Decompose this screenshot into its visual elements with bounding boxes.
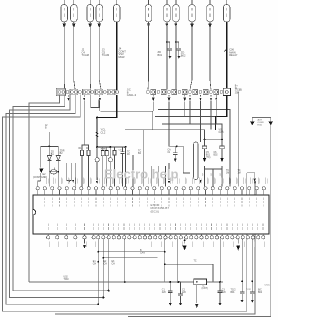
capacitor C9 to ground [218, 282, 223, 306]
wire [166, 22, 168, 90]
wire [147, 22, 150, 90]
junction [96, 117, 98, 119]
wire from IC pin 124.9 to bottom bus [124, 239, 126, 282]
wire IC pin 108.6 down [108, 239, 110, 291]
CAN bus line H [98, 251, 165, 253]
wire [175, 22, 177, 90]
wire R4 [106, 147, 108, 151]
wire arrow [166, 24, 169, 28]
wire corner detail [91, 95, 99, 108]
wire down with arrow into IC pin [168, 163, 170, 180]
wire from pin 211 to h4 [210, 101, 212, 130]
junction [103, 257, 105, 259]
dark bus from relay: down right side and jog [216, 95, 227, 130]
wire R3 [102, 147, 104, 151]
bus jog h1b [158, 110, 230, 187]
wire 166 down [165, 166, 167, 187]
wire arrow [190, 24, 194, 29]
junction [97, 303, 99, 305]
routing wire loop 4 (ends on IC ground wire) [6, 95, 98, 305]
junction [164, 251, 166, 253]
solenoid connector B6 [207, 0, 214, 22]
zener diode D1 [47, 146, 51, 186]
wire from IC pin 164.7 [164, 239, 166, 282]
svg-text:TC/2: TC/2 [246, 289, 252, 291]
tick on relay wire [224, 49, 227, 52]
wire v 216 from pin to h3 [215, 97, 217, 125]
resistor R4b [113, 151, 116, 155]
svg-text:(CONT.GND): (CONT.GND) [33, 176, 47, 179]
svg-text:TC1M: TC1M [238, 170, 241, 175]
junction [251, 281, 253, 283]
IC top pin row [43, 187, 265, 195]
bus after resistor [206, 281, 223, 283]
IC bottom pin labels (inside) [48, 224, 263, 230]
bracket bus above IC pins [205, 166, 223, 169]
solenoid connector B5 [189, 0, 196, 22]
svg-text:C/CC: C/CC [265, 285, 271, 287]
junction [164, 263, 166, 265]
main bottom bus (loop1 continues) [29, 281, 194, 283]
wire from pin 153 down to h1a [152, 101, 154, 111]
ground E2 arrow [39, 169, 43, 174]
routing wire loop 1 (to bottom bus) [29, 95, 60, 283]
tick marks on dark bus [96, 132, 99, 134]
pin arrow [210, 95, 212, 97]
junction [169, 281, 171, 283]
svg-text:R3R4: R3R4 [101, 149, 107, 151]
wire 97 down to IC pin with arrow [96, 147, 98, 158]
pin arrow [152, 95, 154, 97]
sensor connector B2 [145, 0, 152, 22]
svg-text:YCLCL2: YCLCL2 [101, 128, 107, 135]
loop 5 terminal jog and arrow into IC pin [247, 173, 255, 178]
wire [63, 22, 66, 90]
shield loop (tall) [194, 142, 198, 180]
wire arrow [89, 24, 92, 28]
pin arrow [67, 95, 69, 97]
IC bottom pin row C [148, 234, 265, 239]
wire name labels above IC [47, 178, 268, 185]
wire 151 down [150, 166, 152, 187]
capacitor C5 with ground [202, 139, 206, 157]
wire from IC pin 177.6 [177, 239, 179, 282]
bus jog h1a [101, 111, 153, 130]
zener diode D2 [56, 146, 60, 186]
wire to IC pin [74, 163, 76, 187]
junction [124, 281, 126, 283]
wire 125.5 down [125, 147, 127, 187]
resistor R6 drop with ground [196, 285, 198, 303]
IC U1 ECM body [33, 195, 269, 234]
wire jog TC to 213 [165, 264, 213, 282]
wire from pin 184.75 to h2 [184, 101, 186, 116]
wire from arrow pin 84.2 feeding R1 R2 [82, 101, 84, 150]
main relay connector B7 [223, 0, 230, 22]
bottom bus line 3 to right edge riser (battery bridge) [128, 118, 271, 317]
wire below R2 [88, 155, 90, 186]
connector row J1 (left) [56, 88, 118, 95]
bus jog h4 [125, 130, 205, 133]
pin arrow [189, 95, 191, 97]
junction [219, 281, 221, 283]
dark bus jog left [97, 95, 117, 147]
junction [96, 146, 98, 148]
CAN bus line L [103, 257, 157, 259]
wire 133 down [132, 155, 134, 187]
riser 255 terminal arrow [254, 181, 257, 184]
injector connector A2 [71, 0, 78, 22]
junction [48, 145, 50, 147]
svg-text:TC1M: TC1M [226, 170, 229, 175]
svg-text:Electro help: Electro help [104, 167, 178, 182]
wire riser branch to IC pin [246, 173, 248, 187]
resistor R3 [101, 151, 104, 156]
injector connector A1 [61, 0, 68, 22]
junction on E1 wire [97, 261, 99, 263]
junction [109, 146, 111, 148]
shield loop arrow [199, 180, 202, 183]
routing wire loop 3 (ends on IC ground wire) [10, 95, 104, 298]
wire right cap pair 1 [241, 239, 243, 286]
wire from pin 190 to h3 [189, 101, 191, 124]
wire below R1 [81, 155, 83, 186]
dark bus light continuation [109, 146, 126, 148]
wire stub up from junction [48, 132, 50, 146]
wire cluster link [169, 140, 177, 146]
wire from pin 200.5 to shield loop [200, 101, 202, 142]
wire arrow [175, 24, 178, 28]
wire [74, 22, 75, 90]
pin arrow [168, 95, 170, 97]
wire 238.7 down to IC [238, 92, 240, 187]
junction [97, 251, 99, 253]
junction [166, 41, 168, 43]
capacitor CF2 to ground [176, 41, 179, 43]
pin arrow [200, 95, 202, 97]
pin arrow [215, 95, 217, 97]
wire E1 ground from IC [97, 239, 99, 304]
capacitor CF1 to ground [167, 41, 170, 43]
transistor T2 on ground wire [108, 158, 112, 162]
wire right cap pair 2 [251, 239, 253, 286]
junction [175, 41, 177, 43]
pin arrow [184, 95, 186, 97]
dark wire from camshaft sensor B1 [116, 22, 118, 90]
junction [57, 171, 59, 173]
bus jog h2 light part [155, 116, 216, 118]
ground symbol under IC pin [84, 239, 86, 244]
IC bottom pin row A [47, 234, 96, 239]
wire arrow [147, 24, 150, 28]
wire [210, 22, 211, 90]
dark ground arrow right [237, 239, 239, 244]
resistor R5 (noise filter) [194, 279, 207, 285]
dark wire from main relay B7 [226, 22, 228, 90]
wire from pin 169 down to cluster cap [168, 101, 170, 140]
capacitor C6 with ground [220, 139, 224, 157]
wire box segment right of cap [177, 146, 190, 173]
sensor connector B4 [173, 0, 180, 22]
sensor connector B3 [164, 0, 171, 22]
junction [184, 239, 186, 241]
wire top of cap pair [205, 133, 223, 139]
routing wire loop 2 (ends on IC ground wire) [13, 95, 109, 291]
wire arrow [63, 24, 66, 28]
IC top pin labels (inside) [45, 198, 264, 207]
pin arrow [83, 95, 85, 97]
resistor R2 [87, 150, 90, 155]
bottom bus line 2 to riser 255 [55, 181, 255, 314]
svg-text:VSLCAB: VSLCAB [219, 129, 224, 135]
IC pin 1 (E2 ground) [36, 173, 41, 195]
IC bottom pin row B [97, 234, 147, 239]
wire [190, 22, 192, 90]
junction [176, 146, 178, 148]
wires bracket to pins [204, 176, 206, 187]
bridge left ground arrow [250, 122, 254, 126]
svg-text:TC: TC [194, 261, 197, 263]
capacitor C11 to ground [250, 286, 255, 303]
injector connector A3 [87, 0, 94, 22]
wire from arrow pin 99.9 to h1a [99, 101, 101, 111]
twisted pair U loop [67, 163, 71, 181]
bus jog h3 [162, 124, 222, 133]
wire v from h4 [143, 130, 145, 187]
wire arrow [72, 24, 75, 28]
junction [204, 139, 206, 141]
resistor R4 [105, 151, 108, 156]
capacitor C7 to ground [168, 282, 173, 306]
wire arrow [208, 24, 212, 29]
wire jog left cluster [41, 145, 59, 147]
junction [108, 290, 110, 292]
bridge right ground stub and arrow [270, 118, 272, 122]
injector connector A4 [96, 0, 103, 22]
camshaft sensor connector B1 [113, 0, 120, 22]
capacitor C8 to ground [179, 282, 181, 287]
capacitor C10 to ground [240, 286, 245, 303]
wire down from jog [40, 146, 42, 167]
wire v 220 from IC to bus [220, 239, 222, 282]
pin arrow [99, 95, 101, 97]
wire 110.4 down [109, 147, 111, 158]
capacitor C3 [120, 147, 124, 187]
resistor R1 [81, 150, 84, 155]
wire R4b [114, 147, 116, 151]
wire [89, 22, 92, 90]
transistor T1 on ground wire [95, 158, 99, 162]
junction [241, 281, 243, 283]
wire arrow [98, 24, 101, 28]
connector row J2 (right) [147, 88, 231, 95]
wire 158 down [157, 166, 159, 187]
routing wire loop 5 (to riser 246.8) [3, 95, 247, 312]
wire name labels below IC [50, 242, 265, 248]
capacitor C4 with ground arrow [173, 146, 177, 158]
wire [99, 22, 101, 90]
wire E2 ground from IC [102, 239, 104, 298]
dark ground arrow from IC pin [184, 239, 186, 244]
crystal oscillator X1 [50, 168, 58, 175]
